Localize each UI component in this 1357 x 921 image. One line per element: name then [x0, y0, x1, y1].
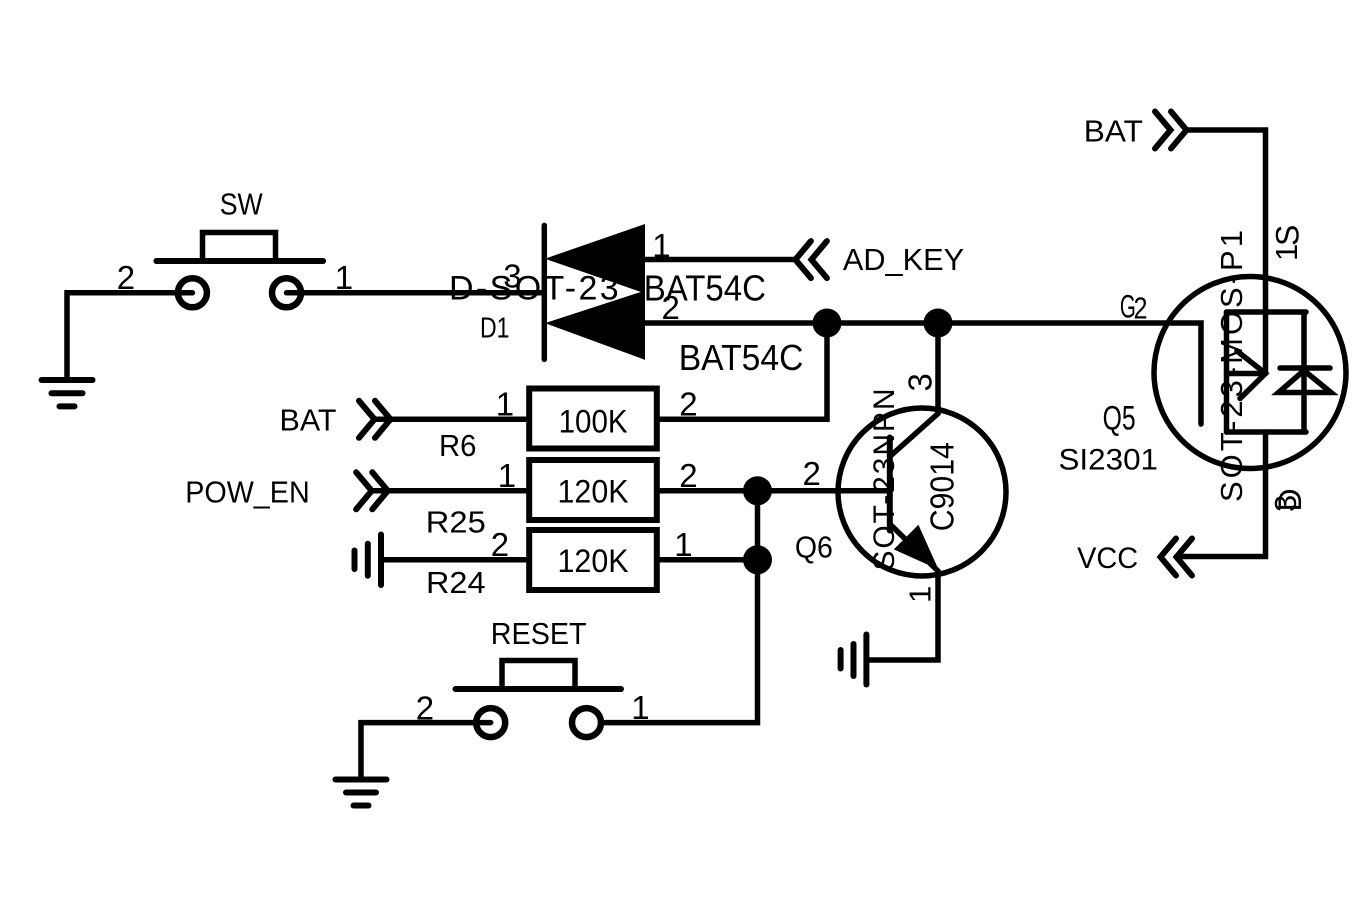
svg-text:BAT: BAT: [1084, 113, 1143, 148]
transistor Q6 (C9014 NPN): [838, 323, 1006, 660]
wire R25 pin2 to Q6 base: [660, 488, 890, 494]
net flag AD_KEY: [795, 241, 827, 278]
ground (R24, sideways): [355, 535, 382, 586]
svg-text:2: 2: [1134, 291, 1148, 326]
svg-text:SI2301: SI2301: [1059, 443, 1159, 476]
net flag POW_EN: [356, 472, 388, 509]
svg-text:3: 3: [503, 257, 521, 294]
wire BAT to Q5 source: [1187, 130, 1266, 374]
svg-text:C9014: C9014: [924, 442, 961, 531]
svg-text:S: S: [1269, 225, 1305, 246]
svg-text:1: 1: [496, 385, 514, 422]
resistor R25: [529, 460, 657, 520]
svg-text:SOT-23-MOS-P1: SOT-23-MOS-P1: [1214, 230, 1249, 502]
svg-text:SW: SW: [220, 187, 264, 222]
net flag BAT (top right): [1155, 112, 1187, 149]
net flag VCC: [1161, 539, 1193, 576]
wire D1 pin2 to gate of Q5 (node net): [643, 323, 1201, 424]
wire Q5 drain to VCC: [1177, 432, 1266, 557]
wire POW_EN to R25 pin1: [372, 488, 526, 494]
MOSFET Q5 (SI2301 P-channel): [1154, 277, 1346, 469]
svg-text:POW_EN: POW_EN: [185, 475, 310, 510]
wire R6 pin2 to node: [660, 323, 827, 419]
junction dot R24/vertical: [743, 545, 772, 574]
ground (SW): [42, 380, 93, 406]
wire D1 pin1 to AD_KEY: [643, 257, 795, 263]
svg-text:R6: R6: [439, 428, 477, 463]
ground (Q6 emitter, sideways): [841, 635, 867, 685]
junction dot R25/vertical: [743, 476, 772, 505]
svg-text:1: 1: [903, 586, 938, 603]
svg-text:AD_KEY: AD_KEY: [843, 242, 964, 277]
svg-text:3: 3: [901, 373, 938, 391]
ground (RESET): [336, 780, 387, 806]
junction dot at R6 connection: [813, 309, 842, 338]
wire SW pin2 to ground: [67, 293, 192, 380]
svg-text:2: 2: [491, 526, 509, 563]
svg-text:120K: 120K: [558, 543, 629, 579]
wire SW pin1 to D1 pin3: [287, 290, 545, 296]
svg-text:SOT-23NPN: SOT-23NPN: [868, 389, 901, 571]
svg-text:100K: 100K: [559, 404, 628, 440]
svg-text:D1: D1: [480, 313, 510, 345]
svg-text:1: 1: [498, 457, 516, 494]
svg-text:R25: R25: [426, 504, 486, 539]
net flag BAT (left): [359, 401, 391, 438]
svg-text:R24: R24: [426, 565, 486, 600]
svg-text:D-SOT-23: D-SOT-23: [449, 270, 619, 308]
junction dot at Q6 collector connection: [924, 309, 953, 338]
svg-text:Q6: Q6: [795, 530, 833, 565]
svg-text:2: 2: [803, 455, 821, 492]
wire R24 pin1 to vertical node: [660, 557, 758, 563]
svg-text:120K: 120K: [558, 473, 629, 509]
svg-text:Q5: Q5: [1103, 400, 1136, 438]
wire ground to R24 pin2: [381, 557, 526, 563]
svg-text:RESET: RESET: [491, 616, 587, 651]
svg-text:1: 1: [631, 689, 649, 726]
wire vertical node down to RESET pin1: [605, 491, 758, 723]
svg-text:BAT: BAT: [280, 403, 337, 438]
svg-text:BAT54C: BAT54C: [679, 337, 804, 378]
wire BAT to R6 pin1: [375, 417, 526, 423]
svg-text:D: D: [1272, 488, 1308, 511]
resistor R6: [529, 389, 657, 449]
resistor R24: [529, 530, 657, 590]
wire RESET pin2 to ground: [361, 723, 491, 780]
switch SW: [156, 233, 323, 308]
svg-text:VCC: VCC: [1077, 542, 1138, 575]
switch RESET: [456, 661, 622, 738]
diode D1 (BAT54C dual, common cathode): [544, 225, 644, 359]
